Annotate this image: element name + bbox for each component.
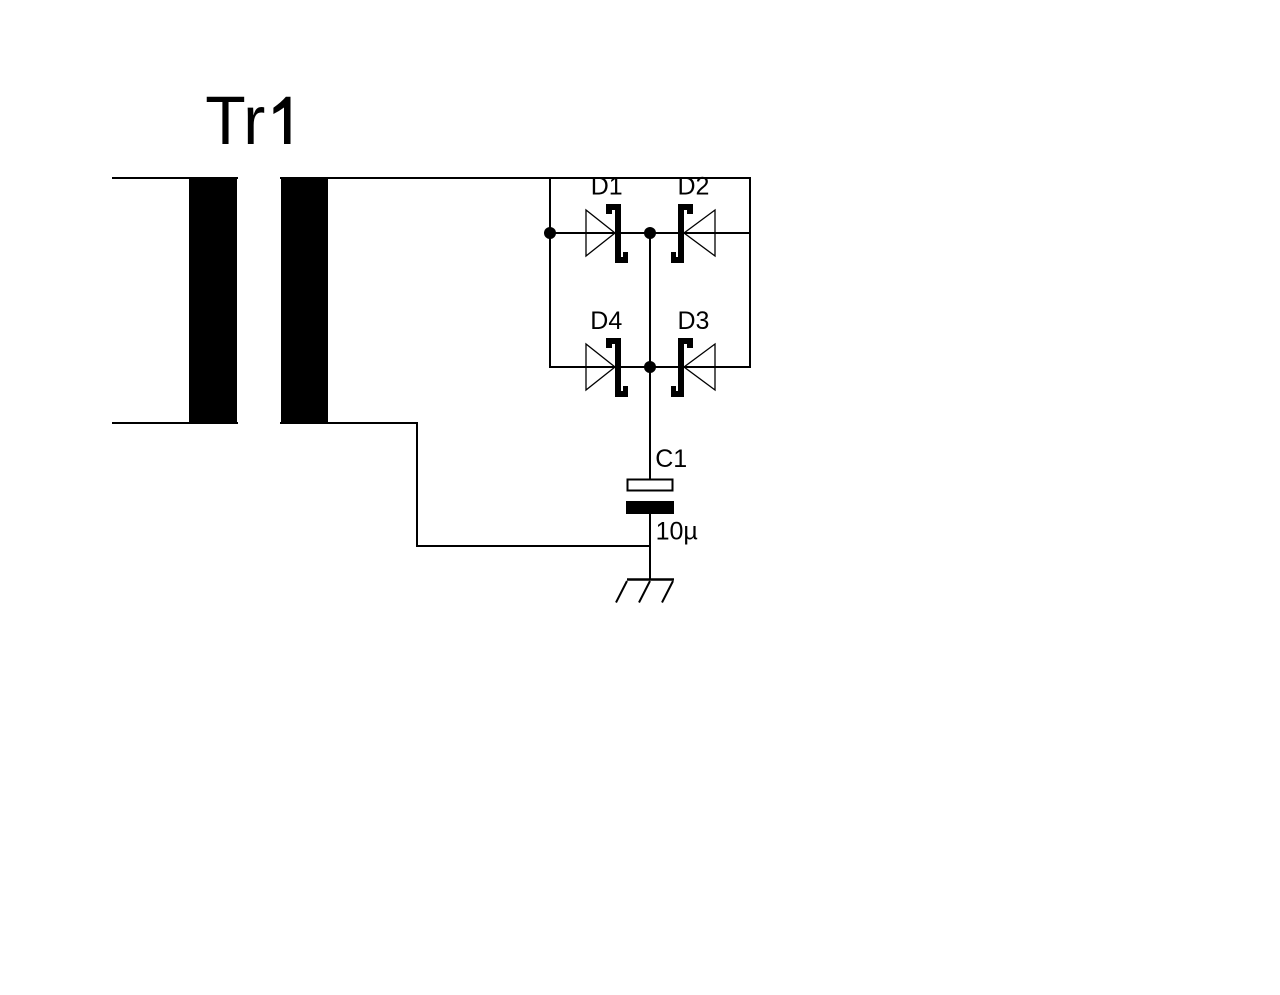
svg-text:D4: D4 [590,307,622,335]
svg-text:C1: C1 [655,445,687,473]
svg-text:D2: D2 [678,173,710,201]
svg-text:Tr: Tr [205,83,265,160]
svg-text:D3: D3 [678,307,710,335]
svg-text:10µ: 10µ [656,517,698,545]
svg-text:D1: D1 [591,173,623,201]
